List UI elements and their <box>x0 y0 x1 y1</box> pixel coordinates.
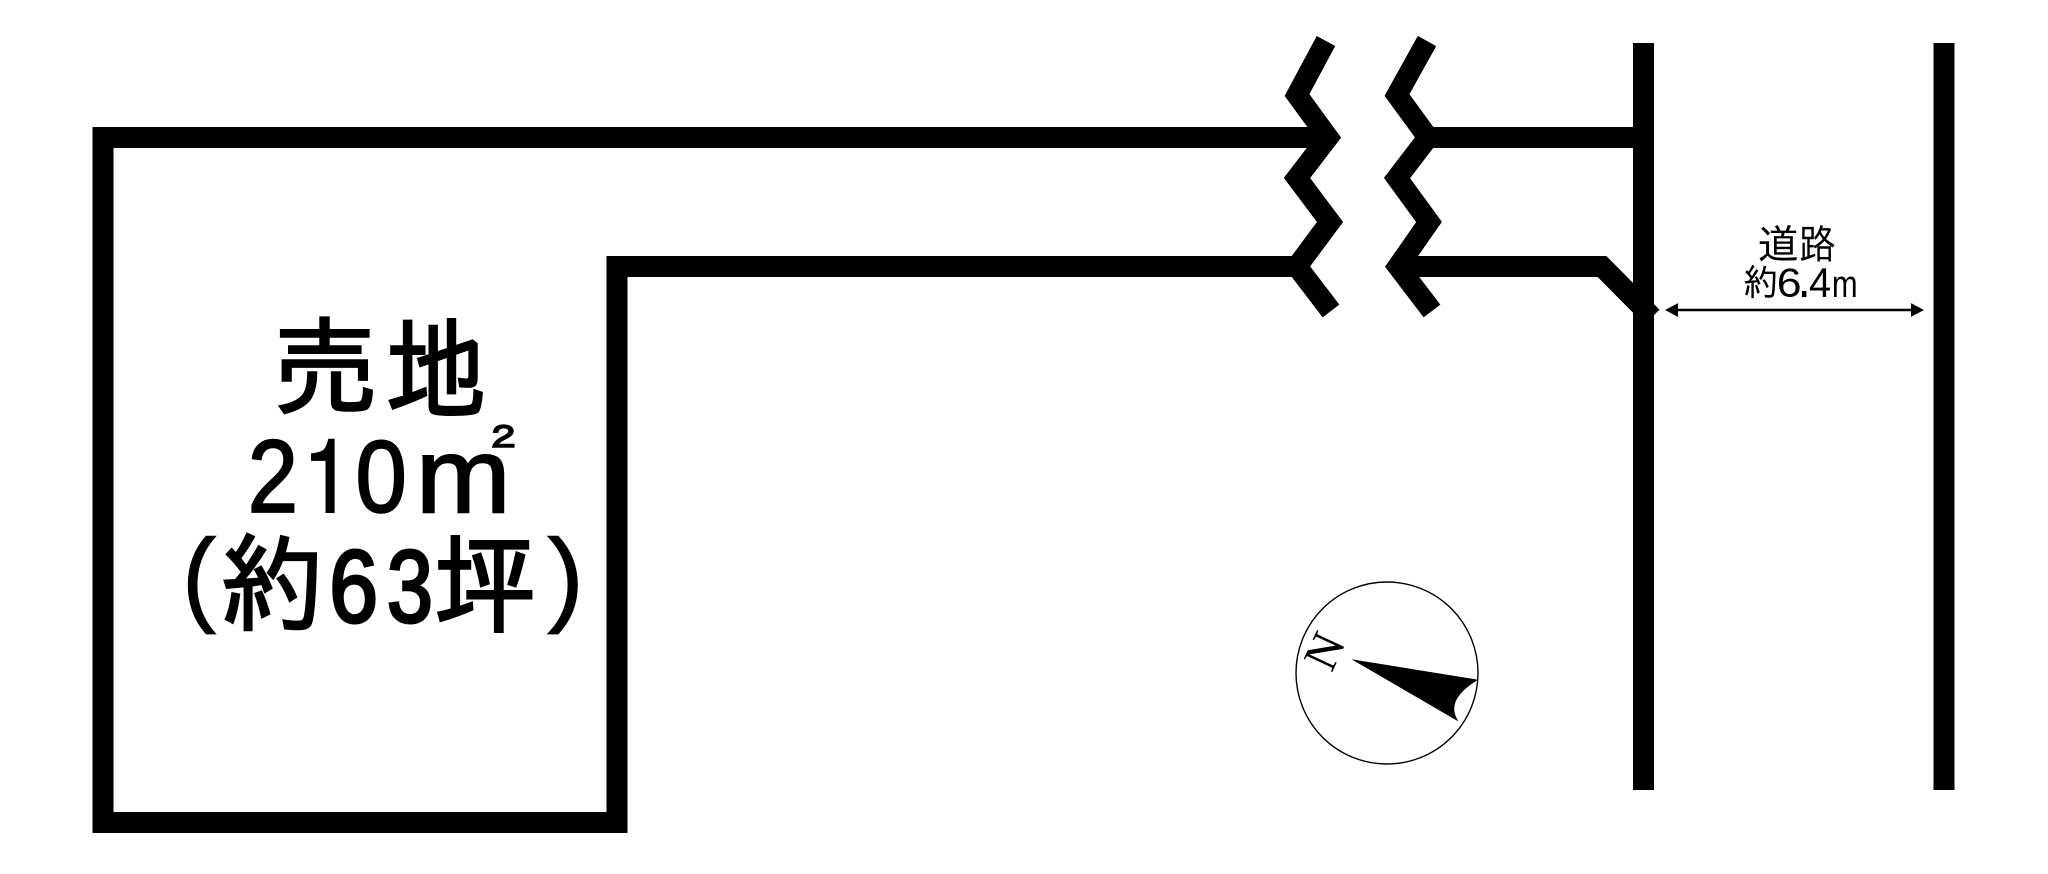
road width label 約 <box>1745 265 1776 298</box>
label 約 (approx.) <box>225 534 317 631</box>
road width decimal point <box>1802 291 1807 297</box>
road far edge line <box>1934 43 1955 790</box>
road width dimension arrow line <box>1677 309 1912 311</box>
road label 道 <box>1760 225 1798 262</box>
label digit 0 of 210 <box>359 441 403 513</box>
road width digit 6 <box>1779 268 1800 297</box>
compass circle <box>1296 582 1478 764</box>
compass N letter (rotated serif N) <box>1304 630 1346 672</box>
dimension arrowhead left <box>1665 303 1678 317</box>
label 地 (kanji "land") <box>390 319 482 415</box>
label letter m of 210m <box>423 455 503 512</box>
label 売 (kanji "sale") <box>280 318 372 414</box>
label digit 2 of 210 <box>252 440 293 512</box>
break mark zigzag right <box>1397 41 1432 311</box>
dimension arrowhead right <box>1911 303 1924 317</box>
road width letter m <box>1834 277 1856 298</box>
label close paren <box>550 537 577 633</box>
road near edge line <box>1633 43 1654 790</box>
label superscript 2 (square meters) <box>493 425 515 447</box>
label digit 1 of 210 <box>312 439 335 512</box>
plot boundary: top edge, left edge, bottom edge, inner step of L-shaped lot <box>103 138 1328 823</box>
compass needle pointing NW with concave tail <box>1351 659 1478 721</box>
label 坪 (tsubo unit) <box>438 536 531 632</box>
break mark zigzag left <box>1297 41 1331 311</box>
label open paren <box>189 537 214 633</box>
lower boundary right segment with diagonal to road <box>1398 267 1652 318</box>
road width digit 4 <box>1810 268 1830 297</box>
label digit 6 of 63 <box>334 550 374 623</box>
label digit 3 of 63 <box>390 550 429 623</box>
top boundary right segment to road <box>1428 127 1650 148</box>
road label 路 <box>1801 225 1835 262</box>
